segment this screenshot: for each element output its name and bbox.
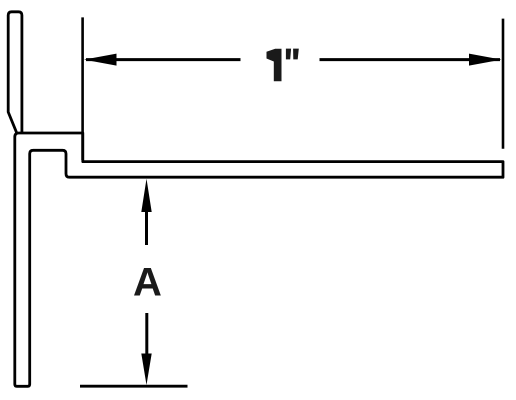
arrowhead left: [84, 54, 117, 66]
datum line: [80, 385, 188, 388]
dimension A lower arrow shaft: [145, 313, 148, 354]
extension line left: [81, 17, 84, 160]
dimension line 1 inch right segment: [320, 58, 501, 61]
label 1 inch quote marks: [286, 49, 299, 60]
extension line right: [502, 19, 505, 149]
label 1 inch digit glyph: [267, 49, 282, 82]
dimension line 1 inch left segment: [86, 58, 241, 61]
profile main body outline: [15, 133, 503, 386]
profile top kick strip: [8, 12, 22, 133]
arrowhead right: [469, 54, 502, 66]
svg-text:A: A: [133, 261, 162, 305]
dimension A upper arrowhead: [141, 179, 151, 212]
dimension A lower arrowhead: [141, 354, 151, 386]
dimension A upper arrow shaft: [145, 210, 148, 245]
